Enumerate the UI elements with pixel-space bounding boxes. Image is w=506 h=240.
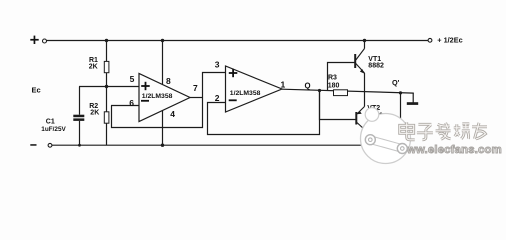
svg-text:www.elecfans.com: www.elecfans.com (397, 144, 502, 156)
svg-text:7: 7 (193, 83, 198, 93)
svg-text:3: 3 (215, 60, 220, 70)
svg-text:1/2LM358: 1/2LM358 (142, 93, 173, 100)
svg-text:2K: 2K (89, 63, 98, 70)
svg-text:+ 1/2Ec: + 1/2Ec (437, 36, 462, 45)
svg-text:8882: 8882 (368, 62, 384, 69)
svg-text:Q': Q' (392, 78, 400, 87)
svg-text:2: 2 (215, 93, 220, 103)
svg-text:1/2LM358: 1/2LM358 (230, 90, 261, 97)
svg-text:Ec: Ec (32, 86, 41, 95)
svg-text:6: 6 (129, 98, 134, 108)
svg-text:1uF/25V: 1uF/25V (41, 126, 66, 133)
svg-text:5: 5 (130, 74, 135, 84)
svg-text:4: 4 (170, 109, 175, 119)
svg-text:180: 180 (328, 83, 340, 90)
svg-text:C1: C1 (46, 118, 55, 125)
svg-text:Q: Q (305, 82, 311, 91)
svg-text:R3: R3 (328, 75, 337, 82)
svg-text:8: 8 (166, 76, 171, 86)
svg-text:2K: 2K (90, 109, 99, 116)
svg-text:1: 1 (281, 80, 286, 90)
